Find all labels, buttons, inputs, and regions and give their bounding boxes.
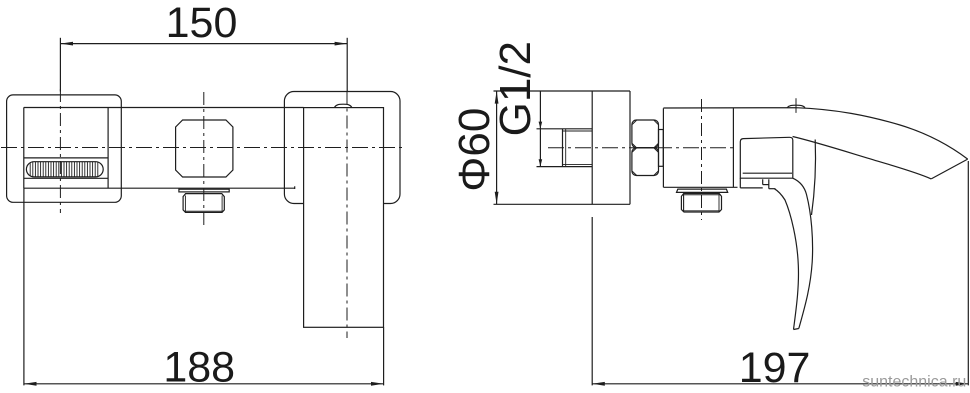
dimension 150 line	[60, 43, 347, 45]
svg-text:suntechnica.ru: suntechnica.ru	[862, 373, 966, 390]
spout pivot center tick	[795, 98, 797, 113]
dimension 188 right extension line	[383, 327, 385, 385]
main body bottom edge (side)	[663, 186, 737, 188]
body bar bottom edge	[24, 187, 295, 189]
dimension 197 left extension line	[591, 217, 593, 385]
main body right edge (side)	[732, 108, 734, 187]
handle paddle (front)	[304, 108, 384, 328]
left housing inner line upper	[24, 157, 108, 159]
lever blade inner edge	[775, 189, 799, 330]
lever blade tip	[794, 329, 799, 330]
spout bottom edge	[793, 137, 932, 179]
blade stem left	[762, 179, 764, 184]
dimension 150 left extension line	[59, 38, 61, 92]
nut collar	[659, 130, 664, 167]
knurled roller outline	[26, 162, 103, 177]
front outlet nut left inner line	[184, 196, 186, 213]
svg-text:G1/2: G1/2	[491, 41, 540, 136]
handle pivot dome (front)	[334, 104, 352, 107]
lever blade outer edge	[793, 178, 813, 328]
dimension 197 right arrow	[956, 382, 969, 386]
G1/2 pipe thread inner vertical	[565, 129, 567, 167]
dimension 188 right arrow	[371, 382, 384, 386]
dimension 188 line	[24, 383, 384, 385]
hex nut lower half (side)	[632, 148, 659, 176]
center line side outlet vertical	[701, 99, 703, 220]
phi60 top arrow	[495, 91, 499, 104]
G1/2 pipe left edge	[562, 129, 564, 167]
escutcheon right edge (side)	[591, 91, 593, 204]
spout tip end face	[931, 159, 968, 179]
side outlet nut	[681, 194, 721, 213]
handle block left edge lower	[739, 178, 741, 188]
blade stem right	[768, 179, 770, 188]
center line right block vertical	[346, 92, 348, 339]
side outlet flange	[677, 189, 728, 192]
dimension 197 right extension line	[967, 161, 969, 385]
right escutcheon block (front view)	[284, 92, 400, 204]
handle block (side)	[740, 137, 793, 178]
handle block bottom step	[740, 187, 762, 189]
hex nut upper half (side)	[632, 120, 659, 148]
front outlet nut	[183, 194, 224, 213]
escutcheon left edge partial / G1/2 dim line	[539, 91, 541, 166]
left escutcheon block (front view)	[7, 95, 122, 202]
handle block inner seam	[743, 172, 792, 174]
G1/2 pipe thread inner top	[563, 130, 593, 132]
wall block top edge (side view)	[494, 90, 631, 92]
front outlet nut inner bottom line	[184, 210, 223, 212]
spout near-side edge	[812, 140, 816, 216]
G1/2 pipe bottom extension line	[537, 166, 593, 168]
dimension 150 left arrow	[60, 42, 73, 46]
dimension 188 left extension line	[23, 188, 25, 385]
dimension 197 line	[592, 383, 968, 385]
body bar bottom end stub	[294, 186, 296, 189]
center line left block vertical	[59, 89, 61, 213]
dimension 188 left arrow	[24, 382, 37, 386]
phi60 bottom arrow	[495, 192, 499, 205]
side outlet nut right inner line	[718, 194, 720, 212]
body bottom segment right of notch	[769, 188, 776, 190]
side outlet nut left inner line	[683, 194, 685, 212]
G1/2 pipe thread inner bottom	[563, 163, 593, 165]
spout top edge	[663, 108, 967, 159]
knurled roller hatch	[30, 162, 98, 177]
left valve housing right edge	[107, 107, 109, 188]
G1/2 upper arrow	[539, 122, 543, 129]
left valve housing left edge	[23, 107, 25, 188]
hex nut chamfer marks	[632, 120, 659, 175]
dimension 150 right arrow	[335, 42, 348, 46]
G1/2 pipe top extension line	[537, 128, 593, 130]
front outlet flange	[179, 189, 229, 192]
center line octagon vertical	[203, 92, 205, 225]
main body left edge (side)	[662, 108, 664, 187]
side outlet nut inner bottom	[682, 210, 720, 212]
wall block bottom edge (side view)	[494, 203, 631, 205]
center line horizontal side view	[548, 147, 736, 149]
front outlet nut right inner line	[221, 196, 223, 213]
blade stem crossbar	[763, 184, 769, 186]
spout pivot dome (side)	[787, 105, 805, 108]
center line horizontal front view	[1, 147, 406, 149]
svg-text:150: 150	[166, 0, 238, 47]
body bar top edge	[24, 107, 304, 109]
G1/2 lower arrow	[539, 159, 543, 166]
dimension 150 right extension line	[346, 38, 348, 92]
phi60 dimension line	[496, 91, 498, 204]
left housing inner line lower	[24, 177, 108, 179]
dimension 197 left arrow	[592, 382, 605, 386]
center diverter octagon	[176, 120, 233, 177]
svg-text:197: 197	[739, 344, 811, 392]
side outlet nut inner top line	[683, 194, 721, 196]
wall body block right edge (side)	[629, 91, 631, 204]
